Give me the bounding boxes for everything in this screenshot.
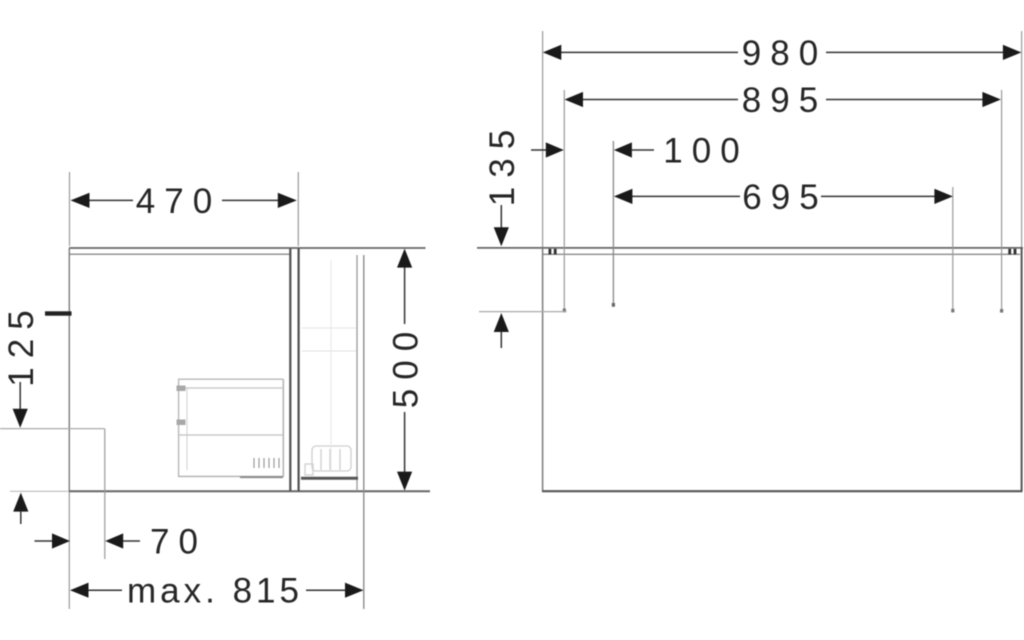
- dim 980 arrow right: [1003, 45, 1022, 60]
- dim 695 arrow right: [934, 189, 953, 204]
- dim 980 extension left: [542, 31, 544, 247]
- dim 695 line left: [631, 195, 740, 197]
- dim 500 arrow down: [397, 472, 412, 491]
- drawer inner faint line upper: [302, 327, 356, 329]
- drawer box bottom dark segment: [240, 476, 283, 478]
- drawer box top line: [178, 378, 283, 380]
- svg-text:470: 470: [136, 182, 221, 221]
- dim max815 arrow right: [345, 583, 364, 598]
- dim 125 arrow up: [13, 493, 28, 512]
- front right edge: [1021, 248, 1023, 491]
- svg-text:695: 695: [742, 178, 827, 217]
- front bottom line: [542, 490, 1023, 492]
- drawer box left inner line: [186, 388, 188, 470]
- dim 100 left tail: [531, 149, 546, 151]
- cabinet left edge extension down: [68, 492, 70, 610]
- siphon trap line: [0, 428, 105, 430]
- dim 895 line right: [826, 99, 983, 101]
- front top inner line: [543, 253, 1021, 255]
- svg-text:100: 100: [663, 132, 748, 171]
- drawer box left line: [178, 379, 180, 477]
- dim 980 extension right: [1021, 31, 1023, 247]
- drawer box top inner line: [178, 387, 283, 389]
- dim 980 line right: [826, 51, 1004, 53]
- dim max815 arrow left: [70, 583, 89, 598]
- svg-text:135: 135: [483, 121, 522, 206]
- drawer front inner line: [289, 249, 291, 492]
- dim 100 arrow left: [546, 142, 564, 157]
- dim 895 extension right / drill line: [1001, 90, 1003, 313]
- dim 100 arrow right: [614, 142, 632, 157]
- reference line 135 bottom: [479, 311, 567, 313]
- drill dot 895 left: [563, 309, 566, 313]
- front top line: [477, 247, 1023, 249]
- drawer box back line: [282, 379, 284, 477]
- front apron outer line / max815 extension: [363, 255, 365, 609]
- dim 135 line upper: [500, 205, 502, 229]
- drill dot 895 right: [1000, 309, 1003, 313]
- dim 470 line: [89, 199, 278, 201]
- dim 500 line lower: [404, 412, 406, 472]
- dim 980 line left: [560, 51, 738, 53]
- drawer inner faint vertical: [330, 260, 332, 470]
- dim 135 lower tail: [500, 332, 502, 349]
- svg-text:70: 70: [150, 523, 207, 562]
- dim 470 arrow right: [278, 193, 297, 208]
- svg-text:895: 895: [742, 81, 827, 120]
- dim 895 arrow right: [982, 92, 1001, 107]
- svg-text:980: 980: [742, 34, 827, 73]
- drawer rail clip upper: [177, 386, 186, 392]
- dim 980 arrow left: [543, 45, 562, 60]
- dim 135 arrow down: [494, 227, 509, 246]
- svg-text:500: 500: [386, 323, 425, 408]
- drawer slide comb ticks: [254, 458, 279, 468]
- drawer rail clip lower: [177, 420, 186, 426]
- cabinet bottom line: [69, 490, 430, 492]
- front left edge: [542, 248, 544, 491]
- drawer front outer line: [298, 249, 300, 492]
- dim max815 line left: [89, 589, 123, 591]
- wall clip right pair: [1008, 249, 1011, 255]
- dim 695 extension right / drill line: [952, 187, 954, 313]
- svg-text:125: 125: [2, 301, 41, 386]
- dim 135 arrow up: [494, 313, 509, 332]
- dim 695 arrow left: [614, 189, 633, 204]
- cabinet bottom extension left: [10, 490, 69, 492]
- drawer slide mechanism: [305, 446, 351, 475]
- dim 125 line: [19, 382, 21, 410]
- tick mark 135-height on left edge: [45, 311, 72, 315]
- wall clip left pair: [549, 249, 552, 255]
- dim 470 extension left: [69, 172, 71, 246]
- dim 695 line right: [821, 195, 936, 197]
- drawer inner faint line lower: [302, 350, 356, 352]
- front apron line: [356, 255, 358, 491]
- dim 895 extension left / drill line: [563, 90, 565, 313]
- drawer box bottom line: [178, 475, 283, 477]
- dim 895 line left: [582, 99, 738, 101]
- dim max815 line right: [306, 589, 346, 591]
- dim 70 left tail: [35, 540, 53, 542]
- cabinet top line: [69, 247, 426, 249]
- dim 100/695 extension / drill line: [612, 141, 614, 307]
- drawer box mid line: [178, 434, 283, 436]
- dim 500 line upper: [404, 266, 406, 324]
- drawer front bottom bar: [301, 477, 358, 480]
- dim 70 arrow left: [52, 533, 70, 548]
- svg-text:max. 815: max. 815: [127, 572, 303, 611]
- dim 895 arrow left: [565, 92, 584, 107]
- cabinet top inner line: [69, 253, 290, 255]
- cabinet left edge: [68, 248, 70, 492]
- drill dot 100: [612, 303, 615, 307]
- dim 100 right tail: [632, 149, 654, 151]
- dim 70 extension right: [104, 429, 106, 559]
- dim 470 extension right: [297, 172, 299, 246]
- dim 470 arrow left: [71, 193, 90, 208]
- dim 70 arrow right: [105, 533, 123, 548]
- drill dot 695 right: [951, 309, 954, 313]
- dim 70 right tail: [123, 540, 140, 542]
- dim 500 arrow up: [397, 249, 412, 268]
- dim 125 lower tail: [20, 511, 22, 524]
- dim 125 arrow down: [13, 409, 28, 428]
